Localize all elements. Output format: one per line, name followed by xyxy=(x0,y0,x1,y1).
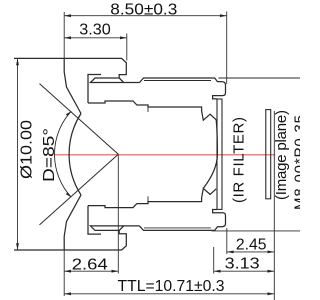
rear lens surface xyxy=(203,120,217,189)
thread label leader top xyxy=(218,77,300,79)
dimension line TTL xyxy=(64,293,274,295)
arrows 2.45 xyxy=(227,251,234,254)
IR filter glass xyxy=(217,99,222,209)
extension line front face bottom xyxy=(63,250,65,296)
extension line barrel end top xyxy=(226,12,228,85)
svg-text:2.64: 2.64 xyxy=(72,257,108,274)
svg-text:Ø10.00: Ø10.00 xyxy=(18,120,35,179)
lens barrel outer profile bottom (mirror) xyxy=(14,210,226,251)
front face and cone bottom xyxy=(64,195,81,250)
svg-text:M8.00*P0.35: M8.00*P0.35 xyxy=(292,115,300,210)
extension line front face top xyxy=(63,12,65,58)
inner lens seat edge top xyxy=(88,75,216,121)
dimension line 2.64 xyxy=(64,270,118,272)
svg-text:2.45: 2.45 xyxy=(236,237,267,254)
thread root line bottom xyxy=(144,227,211,229)
arrows TTL xyxy=(64,292,71,295)
extension line rear vertex xyxy=(213,247,215,274)
arrows dia10 xyxy=(16,58,19,65)
FOV ray upper xyxy=(40,84,119,155)
svg-text:(IR FILTER): (IR FILTER) xyxy=(231,117,248,203)
svg-text:TTL=10.71±0.3: TTL=10.71±0.3 xyxy=(118,278,225,295)
front face and cone top xyxy=(64,58,81,113)
arrows 3.13 xyxy=(214,270,221,273)
lens element edge mark bottom xyxy=(147,196,149,202)
front dome lens surface xyxy=(69,114,81,195)
image plane line xyxy=(273,111,275,300)
inner lens seat edge bottom xyxy=(88,188,216,234)
arrow arc lower xyxy=(66,192,71,197)
FOV ray lower xyxy=(40,154,119,225)
svg-text:8.50±0.3: 8.50±0.3 xyxy=(110,2,177,19)
arrow arc upper xyxy=(66,111,71,116)
thread root line top xyxy=(144,80,211,82)
extension line barrel end bottom xyxy=(226,228,228,254)
extension line vertex plane xyxy=(117,154,119,273)
arrows 3.30 xyxy=(64,36,71,39)
dimension line 2.45 xyxy=(227,251,274,253)
svg-text:3.13: 3.13 xyxy=(225,256,260,273)
arrows 8.50 xyxy=(64,14,71,17)
svg-text:3.30: 3.30 xyxy=(79,22,111,39)
dimension line 3.30 xyxy=(64,37,127,39)
lens barrel outer profile top xyxy=(14,58,226,99)
image plane cover glass xyxy=(266,110,271,199)
dimension line 3.13 xyxy=(214,270,275,272)
red optical axis centerline xyxy=(55,154,275,156)
svg-text:D=85°: D=85° xyxy=(41,128,58,182)
lens element edge mark top xyxy=(147,106,149,112)
dimension line 8.50 xyxy=(64,15,227,17)
thread label leader bottom xyxy=(212,230,301,232)
svg-text:(Image plane): (Image plane) xyxy=(273,110,290,200)
arrows 2.64 xyxy=(64,270,71,273)
extension line flange step xyxy=(126,34,128,61)
angle dimension arc D=85 xyxy=(54,111,71,197)
dimension line dia 10 xyxy=(17,58,19,250)
